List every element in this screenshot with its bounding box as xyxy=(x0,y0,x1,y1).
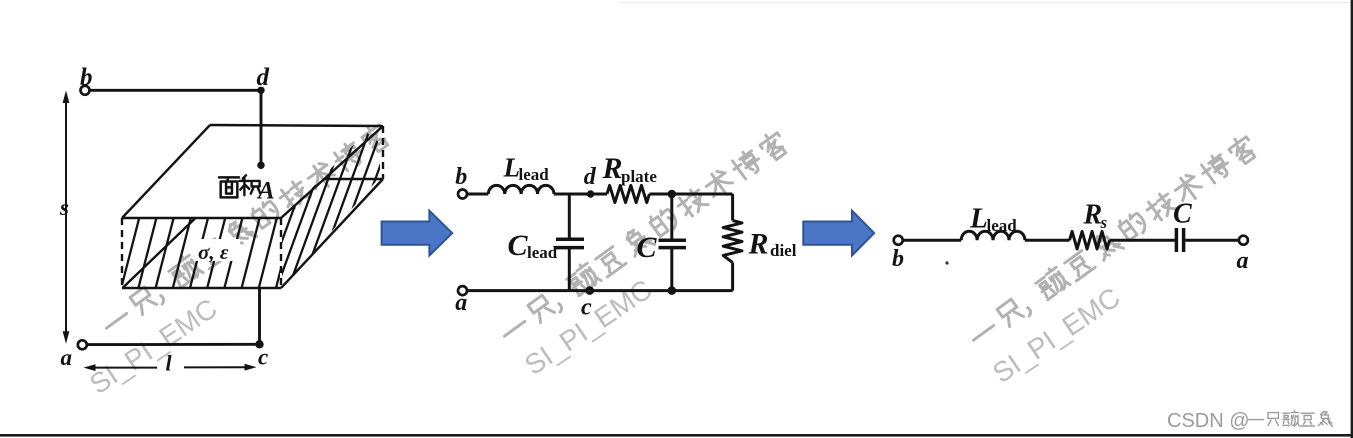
svg-text:s: s xyxy=(1100,213,1108,232)
svg-text:CSDN @: CSDN @ xyxy=(1167,410,1250,432)
svg-text:l: l xyxy=(166,351,173,376)
svg-text:L: L xyxy=(969,203,988,235)
svg-text:c: c xyxy=(581,295,592,321)
svg-text:C: C xyxy=(508,229,529,262)
svg-text:b: b xyxy=(80,64,93,91)
svg-text:lead: lead xyxy=(519,165,550,184)
svg-text:a: a xyxy=(61,345,73,370)
svg-text:lead: lead xyxy=(987,216,1018,235)
svg-text:R: R xyxy=(602,152,623,185)
svg-text:lead: lead xyxy=(527,243,558,262)
svg-text:b: b xyxy=(455,164,467,190)
svg-text:A: A xyxy=(256,178,275,205)
svg-text:C: C xyxy=(1173,199,1192,230)
svg-text:C: C xyxy=(637,231,658,264)
svg-text:σ, ε: σ, ε xyxy=(198,240,229,264)
svg-text:R: R xyxy=(748,228,769,261)
svg-text:d: d xyxy=(584,164,597,190)
svg-text:s: s xyxy=(59,195,69,220)
svg-text:plate: plate xyxy=(621,167,657,186)
svg-text:R: R xyxy=(1083,200,1103,231)
svg-text:d: d xyxy=(257,64,270,91)
svg-text:c: c xyxy=(258,345,268,370)
svg-text:b: b xyxy=(892,246,904,272)
svg-text:a: a xyxy=(1237,248,1249,274)
svg-text:diel: diel xyxy=(770,241,797,260)
svg-text:a: a xyxy=(455,290,467,316)
svg-text:L: L xyxy=(503,153,521,183)
